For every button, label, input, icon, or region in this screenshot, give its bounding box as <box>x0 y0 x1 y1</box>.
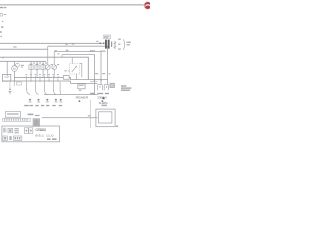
PCB part r1c2 <box>8 128 13 132</box>
label a on L1 <box>66 44 68 45</box>
pin header strip <box>3 118 30 121</box>
wire S1 bottom lead <box>75 74 78 80</box>
filter capacitor C1 bar 2 <box>108 40 110 49</box>
svg-text:230/2 V: 230/2 V <box>97 96 107 100</box>
label M1 1~ <box>21 65 24 68</box>
margin note 4 <box>0 31 2 33</box>
header rule <box>0 4 144 5</box>
wire fan f3 corner down <box>62 55 95 95</box>
filter capacitor C1 bar 1 <box>105 40 107 49</box>
label E <box>102 100 104 102</box>
display module inner box <box>99 112 112 123</box>
suppressor C3 lead <box>36 61 39 78</box>
junction dot filter in <box>99 42 101 44</box>
bottom bus wire <box>44 93 98 96</box>
wire rail step right <box>69 78 108 80</box>
valve symbol Y5 <box>59 99 62 102</box>
valve labels row <box>24 105 62 106</box>
drop labels 156 159 1 <box>95 73 110 74</box>
wire bus L4 <box>0 60 46 63</box>
junction dot filter in2 <box>103 42 105 44</box>
PCB part r2c4 <box>47 138 57 140</box>
connector strip lower rail <box>2 80 71 83</box>
buzzer dark square <box>103 97 105 99</box>
label b on L3 left <box>2 57 4 58</box>
label 240V AC <box>97 93 109 94</box>
filter output mark <box>111 42 112 48</box>
door lock S1 switch <box>72 66 77 72</box>
display module tab <box>101 105 107 107</box>
connector pin labels <box>25 74 59 75</box>
wire bus L2 <box>0 48 48 51</box>
thermostat B1 <box>45 65 50 70</box>
wire lower rail step <box>71 81 98 83</box>
valve wire Y3 <box>45 82 48 95</box>
label C3 <box>39 63 41 64</box>
label 13 on L2 mid <box>13 46 16 47</box>
display module outer box <box>96 109 115 127</box>
suppressor C2 lead <box>30 61 33 78</box>
label w on L2 <box>55 50 57 51</box>
valve wire Y1 <box>27 82 30 95</box>
long link wire <box>42 116 98 119</box>
suppressor C4 lead <box>42 61 45 78</box>
suppressor C2 <box>29 64 33 70</box>
label 10 on L1 <box>72 43 75 44</box>
label B1 <box>51 64 53 65</box>
display module corner tick <box>116 125 118 127</box>
valve symbol Y3 <box>46 99 49 102</box>
PCB label B03 <box>35 134 44 138</box>
PCB part r1c1 <box>3 128 6 133</box>
PCB part r2c2 <box>9 136 11 140</box>
margin note 5 <box>0 36 2 37</box>
svg-text:P03 A05 R: P03 A05 R <box>76 96 89 100</box>
svg-text:M: M <box>13 67 16 71</box>
label C4 <box>45 63 47 64</box>
margin note 3 <box>1 26 3 28</box>
label 230/2V <box>97 96 107 100</box>
plug contact b <box>104 85 108 91</box>
label P03 A05 R <box>76 96 89 100</box>
label B2 <box>57 64 59 65</box>
label B <box>79 100 81 102</box>
wire fan f5 from lock box corner down <box>80 63 82 77</box>
label C2 <box>33 63 35 64</box>
wire stub under relay <box>90 80 97 83</box>
lock module box <box>78 84 85 89</box>
PCB part r2c3 <box>14 136 22 140</box>
fuse F1 box on rail <box>63 76 69 80</box>
valve wire Y5 <box>59 82 62 95</box>
valve symbol Y1 <box>29 99 32 102</box>
connector strip upper rail <box>14 76 63 79</box>
label tick L1 right <box>96 41 98 42</box>
margin note 2 <box>2 21 3 22</box>
valve symbol Y2 <box>37 99 40 102</box>
label above line <box>35 115 40 116</box>
label rg <box>79 90 81 91</box>
wire motor lead <box>14 61 16 82</box>
mains brace <box>123 39 124 49</box>
svg-text:CX3181Ω: CX3181Ω <box>35 128 46 132</box>
terminal labels L N <box>118 39 121 50</box>
junction dot rail v1 <box>94 79 96 81</box>
motor M1 <box>12 63 20 71</box>
wire drop left column <box>6 61 9 76</box>
label ACC left <box>90 93 95 94</box>
door lock S1 box (dashed) <box>70 64 80 74</box>
link wire label <box>88 115 91 116</box>
valve wire Y2 <box>36 82 39 95</box>
suppressor C3 <box>35 64 39 70</box>
connector X1 block <box>33 119 40 127</box>
wire fan f1 corner down <box>48 46 108 84</box>
wire ground stub <box>9 81 12 89</box>
relay K1 box <box>110 83 115 87</box>
wire bus L1 <box>0 42 104 45</box>
valve symbol Y4 <box>55 99 58 102</box>
logo S (red site logo) <box>144 2 152 10</box>
label a-b <box>28 114 34 116</box>
svg-text:B03(1): B03(1) <box>35 134 44 138</box>
varistor RV1 <box>114 41 117 49</box>
mains label 230V <box>127 42 131 46</box>
wire fan f2 corner down <box>54 52 101 85</box>
label 10 on L2 <box>66 50 69 51</box>
PCB module A1 box <box>2 126 60 142</box>
thermostat B2 <box>52 65 57 70</box>
label 1a above fuse <box>65 70 70 71</box>
wire fan f3 feed tick <box>61 55 64 58</box>
wire timer drop <box>13 81 16 86</box>
scan fold line <box>89 100 92 129</box>
PCB part r2c1 <box>3 136 7 140</box>
PCB part r1c4 <box>24 128 32 134</box>
connector pin ticks <box>27 76 58 82</box>
svg-text:ALARM: ALARM <box>99 101 108 105</box>
wire S1 top lead <box>71 57 74 63</box>
margin note 1 <box>0 13 6 16</box>
label ALARM <box>99 101 108 105</box>
plug contact a <box>98 85 103 91</box>
heater box R1 <box>3 74 11 81</box>
ground symbol <box>9 89 12 95</box>
header caption text <box>0 7 6 8</box>
thermostat B1 lead <box>46 46 49 77</box>
label a on L3 <box>58 53 60 54</box>
side note text block <box>121 85 131 90</box>
filter bottom label <box>90 50 106 52</box>
PCB label CX3181 <box>35 128 46 132</box>
timer box <box>5 112 20 118</box>
svg-text:(2)_/Ω: (2)_/Ω <box>46 134 53 138</box>
wire bus L3 with corner down <box>0 57 88 79</box>
junction dot rail v2 <box>100 79 102 81</box>
PCB part r1c3 <box>14 128 18 133</box>
aux box below rail <box>17 82 22 85</box>
valve wire Y4 <box>54 82 56 95</box>
thermostat B2 lead <box>53 52 56 78</box>
suppressor C4 <box>41 64 45 70</box>
PCB label ohm <box>46 134 53 138</box>
filter label box <box>103 35 110 39</box>
